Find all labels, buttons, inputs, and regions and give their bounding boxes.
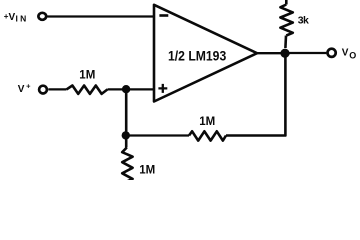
svg-text:3k: 3k	[298, 15, 309, 27]
node V+ input terminal	[39, 86, 47, 94]
wire R2 3k to output node	[284, 36, 287, 49]
node output junction dot	[280, 49, 289, 58]
svg-text:1M: 1M	[199, 116, 215, 128]
wire R1 to non-inverting input	[108, 88, 156, 90]
wire node B down to resistor R4	[125, 135, 128, 147]
wire output node to VO terminal	[290, 52, 326, 54]
wire op-amp output to node	[256, 52, 290, 54]
op-amp U1 1/2 LM193	[154, 5, 257, 102]
wire R3 to output node riser	[226, 53, 285, 136]
node +VIN input terminal	[38, 13, 46, 20]
resistor R4 1M to ground (cut off)	[122, 148, 132, 182]
wire node A down to node B	[125, 89, 128, 135]
svg-text:1M: 1M	[139, 165, 155, 177]
resistor R1 1M	[67, 86, 108, 94]
wire node B right to resistor R3	[126, 134, 189, 136]
wire V+ to resistor R1	[48, 88, 66, 90]
resistor R2 3k	[280, 5, 292, 36]
svg-text:1/2 LM193: 1/2 LM193	[168, 48, 226, 64]
op-amp non-inverting input plus sign	[158, 84, 167, 93]
resistor R3 1M feedback	[189, 131, 226, 140]
wire +VIN to inverting input	[48, 15, 156, 17]
node VO output terminal	[328, 49, 336, 57]
node A junction dot	[122, 85, 130, 93]
op-amp inverting input minus sign	[159, 14, 168, 17]
svg-text:1M: 1M	[79, 70, 95, 82]
resistor R2 3k top lead	[285, 0, 288, 5]
node B junction dot	[122, 131, 130, 139]
